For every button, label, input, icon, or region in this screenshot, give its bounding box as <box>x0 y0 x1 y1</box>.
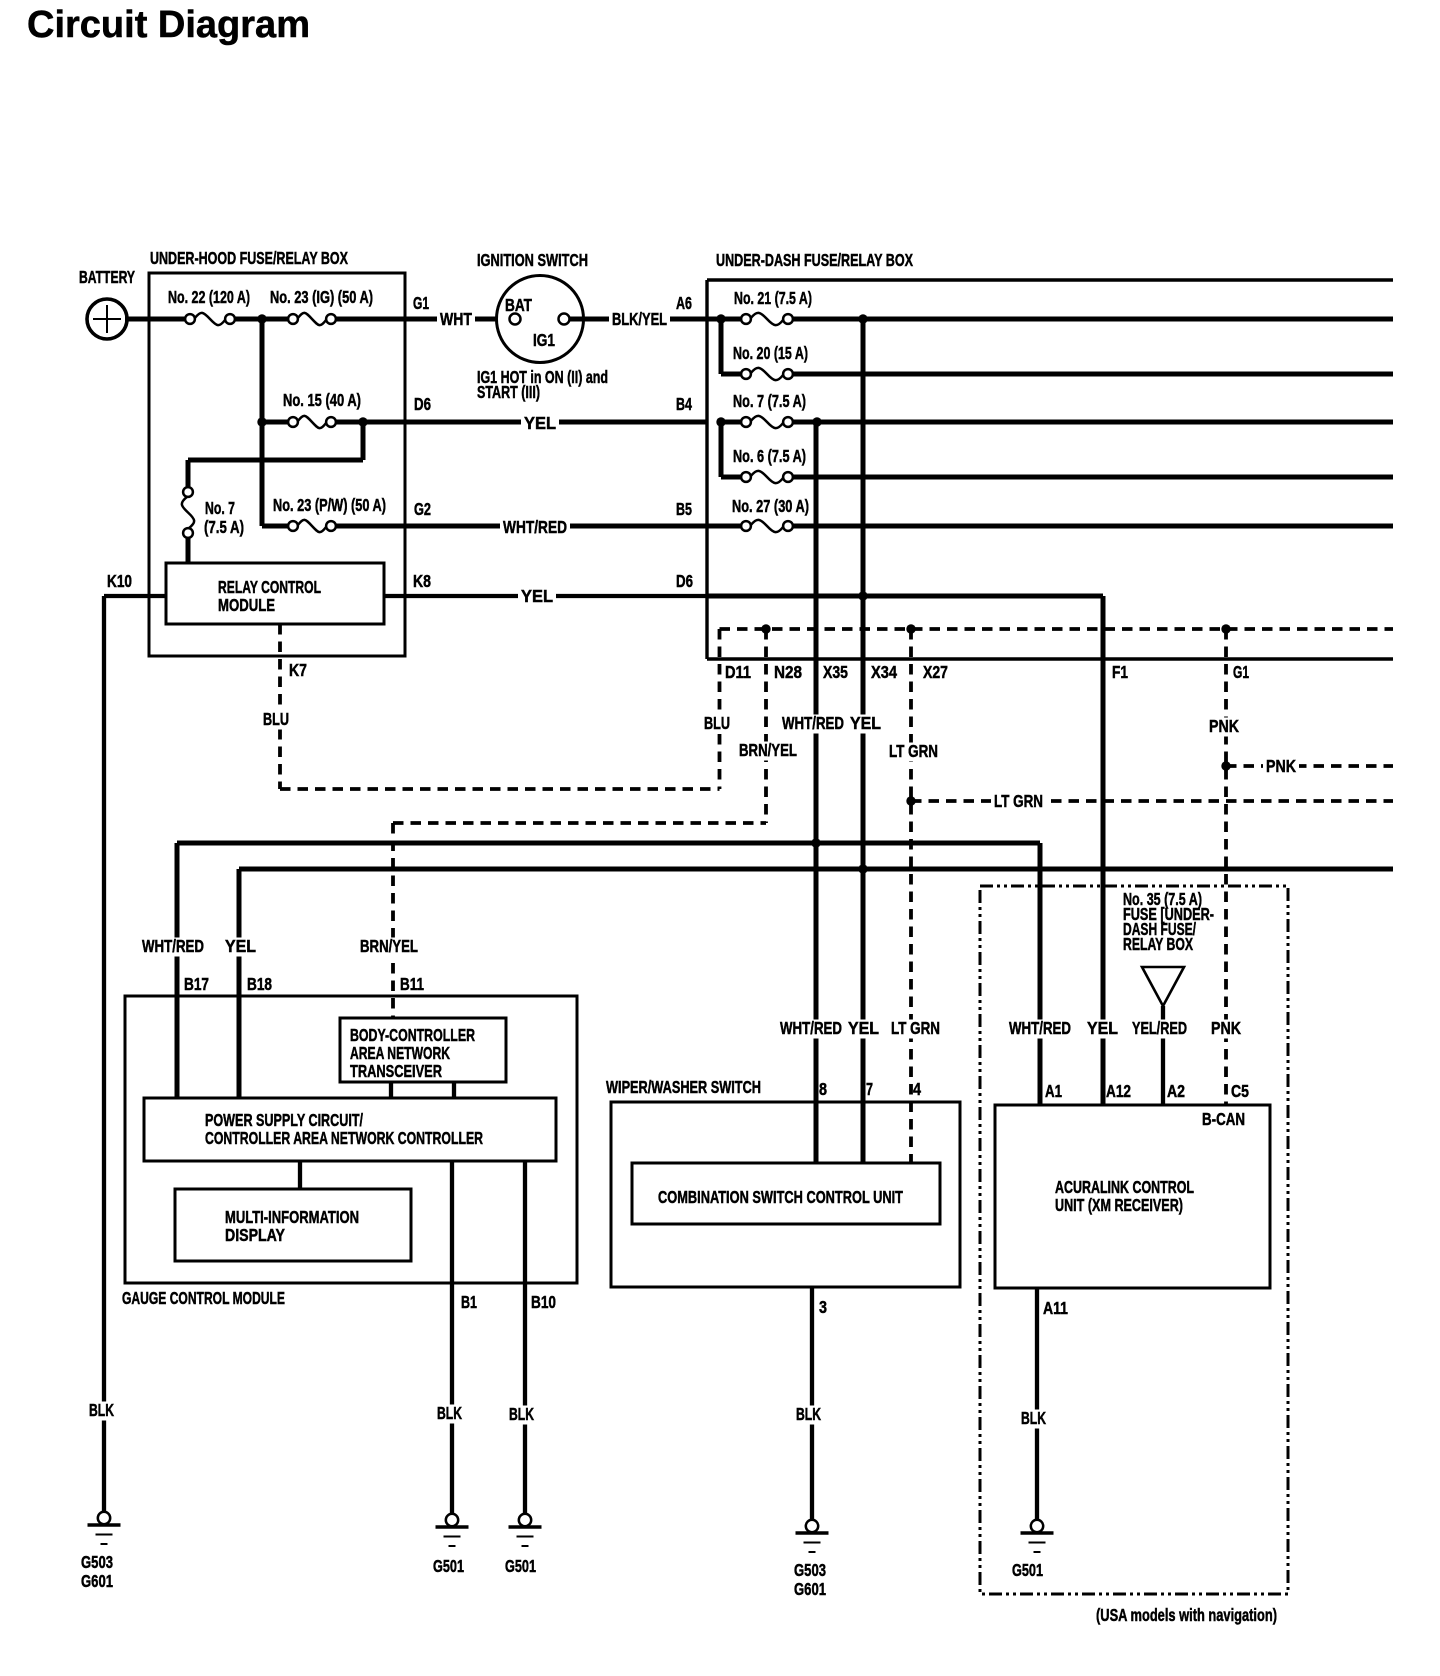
wire fuse No.6 output <box>792 475 1393 480</box>
svg-text:G2: G2 <box>414 499 431 519</box>
under-dash fuse/relay box <box>707 250 1393 659</box>
fuse No.7 (7.5 A) under-dash <box>733 391 806 428</box>
wire B4 to fuse No.7 <box>721 420 742 425</box>
svg-text:COMBINATION SWITCH CONTROL UNI: COMBINATION SWITCH CONTROL UNIT <box>658 1187 903 1207</box>
svg-text:G601: G601 <box>81 1571 113 1591</box>
wire battery to fuse No.22 <box>125 317 186 322</box>
combination switch control unit <box>632 1163 940 1224</box>
wire D6 to F1 corner <box>707 594 1103 599</box>
wire K10 <box>104 571 166 596</box>
node X27 tap <box>906 624 915 633</box>
ground G501 acuralink <box>1012 1520 1054 1580</box>
svg-text:G501: G501 <box>433 1556 464 1576</box>
title Circuit Diagram <box>27 4 310 46</box>
pin A12 <box>1106 1081 1131 1101</box>
wire G2 WHT/RED to B5 <box>335 499 707 538</box>
svg-text:POWER SUPPLY CIRCUIT/: POWER SUPPLY CIRCUIT/ <box>205 1110 363 1130</box>
wire YEL/RED to A2 <box>1129 1006 1190 1105</box>
svg-text:WHT: WHT <box>440 309 472 329</box>
node D6 / X34 tap <box>858 591 867 600</box>
svg-text:WHT/RED: WHT/RED <box>780 1018 842 1038</box>
svg-text:BRN/YEL: BRN/YEL <box>739 740 797 760</box>
fuse No.35 note <box>1123 889 1214 954</box>
fuse No.23 (IG) (50 A) <box>270 287 373 325</box>
svg-text:BLK: BLK <box>437 1403 462 1423</box>
wire WHT/RED trunk <box>139 843 1040 1098</box>
svg-text:YEL: YEL <box>524 413 556 433</box>
wire WHT/RED down to A1 <box>1006 843 1074 1105</box>
multi-information display <box>175 1189 411 1261</box>
svg-text:IG1: IG1 <box>533 330 555 350</box>
wire B4 branch down to fuse No.6 <box>721 422 742 477</box>
pin C5 <box>1231 1081 1249 1101</box>
svg-text:No. 27 (30 A): No. 27 (30 A) <box>732 496 809 516</box>
svg-text:CONTROLLER AREA NETWORK CONTRO: CONTROLLER AREA NETWORK CONTROLLER <box>205 1128 483 1148</box>
wire X34 YEL vertical <box>845 319 897 1163</box>
svg-text:C5: C5 <box>1231 1081 1249 1101</box>
svg-text:RELAY BOX: RELAY BOX <box>1123 934 1193 954</box>
acuralink control unit box <box>995 1105 1270 1288</box>
svg-text:BLU: BLU <box>704 713 730 733</box>
svg-text:BAT: BAT <box>505 295 532 315</box>
wire ignition IG1 BLK/YEL to A6 <box>570 293 721 330</box>
svg-text:No. 6 (7.5 A): No. 6 (7.5 A) <box>733 446 806 466</box>
wire No.15 output to under-hood fuse No.7 <box>188 422 363 489</box>
svg-text:A11: A11 <box>1043 1298 1068 1318</box>
pin A1 <box>1045 1081 1062 1101</box>
node B4 <box>716 417 725 426</box>
node LT GRN branch <box>906 796 915 805</box>
relay control module <box>166 563 384 624</box>
wire fuse No.20 output <box>792 372 1393 377</box>
svg-text:UNDER-DASH FUSE/RELAY BOX: UNDER-DASH FUSE/RELAY BOX <box>716 250 913 270</box>
svg-text:No. 15 (40 A): No. 15 (40 A) <box>283 390 361 410</box>
svg-text:BLU: BLU <box>263 709 289 729</box>
node fuse No.21 output / X34 tap <box>858 314 867 323</box>
fuse No.23 (P/W) (50 A) <box>262 495 386 532</box>
wire B10 BLK <box>506 1161 556 1513</box>
ground G501 B1 <box>433 1514 469 1576</box>
svg-text:B18: B18 <box>247 974 272 994</box>
node N28 tap <box>761 624 770 633</box>
svg-text:BLK: BLK <box>89 1400 114 1420</box>
wire G1 PNK dashed down to C5 <box>1206 629 1249 1105</box>
svg-text:D11: D11 <box>725 662 751 682</box>
svg-text:LT GRN: LT GRN <box>889 741 938 761</box>
fuse No.21 (7.5 A) <box>734 288 812 325</box>
fuse No.27 (30 A) <box>732 496 809 532</box>
svg-text:GAUGE CONTROL MODULE: GAUGE CONTROL MODULE <box>122 1288 285 1308</box>
fuse No.20 (15 A) <box>733 343 808 380</box>
svg-text:8: 8 <box>819 1079 827 1099</box>
node X34 on YEL trunk <box>858 864 867 873</box>
wire PNK dashed to right edge <box>1226 756 1393 777</box>
svg-text:B10: B10 <box>531 1292 556 1312</box>
svg-text:No. 23 (IG) (50 A): No. 23 (IG) (50 A) <box>270 287 373 307</box>
svg-text:B1: B1 <box>461 1292 477 1312</box>
wire X35 WHT/RED vertical <box>777 422 848 1163</box>
wire A11 BLK <box>1018 1288 1068 1520</box>
wire BLK left trunk down <box>102 596 106 1512</box>
svg-text:X27: X27 <box>923 662 948 682</box>
svg-text:BLK: BLK <box>796 1404 821 1424</box>
svg-text:YEL/RED: YEL/RED <box>1132 1018 1187 1038</box>
fuse No.22 (120 A) <box>168 287 250 325</box>
wire X27 LT GRN dashed down to pin 4 <box>886 629 948 1163</box>
svg-text:G501: G501 <box>505 1556 536 1576</box>
svg-text:No. 21 (7.5 A): No. 21 (7.5 A) <box>734 288 812 308</box>
svg-text:G1: G1 <box>1233 662 1249 682</box>
svg-text:K8: K8 <box>413 571 431 591</box>
svg-text:D6: D6 <box>414 394 431 414</box>
svg-text:D6: D6 <box>676 571 693 591</box>
svg-text:UNIT (XM RECEIVER): UNIT (XM RECEIVER) <box>1055 1195 1183 1215</box>
svg-text:B-CAN: B-CAN <box>1202 1109 1245 1129</box>
wire K7 BLU dashed to D11 <box>260 624 751 789</box>
svg-text:X35: X35 <box>823 662 848 682</box>
wires transceiver to controller <box>391 1082 454 1098</box>
svg-text:AREA NETWORK: AREA NETWORK <box>350 1043 450 1063</box>
svg-text:TRANSCEIVER: TRANSCEIVER <box>350 1061 442 1081</box>
svg-text:PNK: PNK <box>1209 716 1239 736</box>
svg-text:K10: K10 <box>107 571 132 591</box>
svg-text:7: 7 <box>866 1079 873 1099</box>
wire node to fuse No.15 <box>262 420 289 425</box>
svg-text:DISPLAY: DISPLAY <box>225 1225 285 1245</box>
node G1 tap <box>1221 624 1230 633</box>
wire node to fuse No.23(IG) <box>262 317 289 322</box>
fuse No.6 (7.5 A) <box>733 446 806 483</box>
fuse No.15 (40 A) <box>283 390 361 428</box>
wire dashed bus in under-dash box <box>720 627 1394 631</box>
svg-text:(7.5 A): (7.5 A) <box>204 517 244 537</box>
wire B5 to fuse No.27 <box>707 524 742 529</box>
ignition switch <box>477 250 588 363</box>
wire K8 YEL to D6 <box>384 571 707 607</box>
ground G501 B10 <box>505 1514 542 1576</box>
svg-text:YEL: YEL <box>521 586 553 606</box>
node PNK branch <box>1221 761 1230 770</box>
svg-text:LT GRN: LT GRN <box>891 1018 940 1038</box>
svg-text:YEL: YEL <box>850 713 881 733</box>
svg-text:YEL: YEL <box>848 1018 879 1038</box>
wire N28 BRN/YEL dashed to B11 <box>357 629 802 1018</box>
svg-text:A6: A6 <box>676 293 692 313</box>
wire fuse No.22 to node <box>234 317 262 322</box>
svg-text:WHT/RED: WHT/RED <box>782 713 844 733</box>
svg-text:BLK: BLK <box>1021 1408 1046 1428</box>
svg-text:MULTI-INFORMATION: MULTI-INFORMATION <box>225 1207 359 1227</box>
svg-text:PNK: PNK <box>1266 756 1296 776</box>
node X35 on WHT/RED trunk <box>811 838 820 847</box>
svg-text:N28: N28 <box>774 662 802 682</box>
wire F1 YEL down to A12 <box>1084 596 1128 1105</box>
svg-text:B5: B5 <box>676 499 692 519</box>
svg-text:3: 3 <box>819 1297 827 1317</box>
svg-text:No. 7 (7.5 A): No. 7 (7.5 A) <box>733 391 806 411</box>
note IG1 HOT <box>477 367 608 402</box>
svg-text:No. 23 (P/W) (50 A): No. 23 (P/W) (50 A) <box>273 495 386 515</box>
svg-text:Circuit Diagram: Circuit Diagram <box>27 4 310 46</box>
wire fuse No.15 output D6 YEL to B4 <box>335 394 707 434</box>
svg-text:LT GRN: LT GRN <box>994 791 1043 811</box>
svg-text:MODULE: MODULE <box>218 595 275 615</box>
svg-text:(USA models with navigation): (USA models with navigation) <box>1096 1605 1277 1625</box>
node under-hood bus <box>257 314 266 323</box>
svg-text:A2: A2 <box>1167 1081 1185 1101</box>
wire controller to display <box>298 1161 302 1189</box>
wire pin 3 BLK <box>793 1287 827 1520</box>
svg-text:BRN/YEL: BRN/YEL <box>360 936 418 956</box>
svg-text:B11: B11 <box>400 974 424 994</box>
fuse No.35 triangle symbol <box>1142 967 1184 1006</box>
svg-text:YEL: YEL <box>1087 1018 1118 1038</box>
battery <box>79 267 135 339</box>
svg-text:YEL: YEL <box>225 936 256 956</box>
pin 8 <box>819 1079 827 1099</box>
svg-text:BLK: BLK <box>509 1404 534 1424</box>
svg-text:G503: G503 <box>794 1560 826 1580</box>
svg-text:BLK/YEL: BLK/YEL <box>612 309 667 329</box>
wire LT GRN dashed to right edge <box>911 791 1393 812</box>
node A6 <box>716 314 725 323</box>
wire B1 BLK <box>434 1161 477 1513</box>
svg-text:A1: A1 <box>1045 1081 1062 1101</box>
svg-text:G601: G601 <box>794 1579 826 1599</box>
svg-text:PNK: PNK <box>1211 1018 1241 1038</box>
wire fuse No.21 output <box>792 317 1393 322</box>
svg-text:A12: A12 <box>1106 1081 1131 1101</box>
svg-text:WHT/RED: WHT/RED <box>1009 1018 1071 1038</box>
wire fuse No.7 output <box>792 420 1393 425</box>
wire under-hood fuse No.7 to relay control module <box>186 537 191 563</box>
ground G503/G601 left <box>81 1512 121 1591</box>
gauge control module box <box>122 996 577 1308</box>
wire fuse No.27 output <box>792 524 1393 529</box>
svg-text:No. 22 (120 A): No. 22 (120 A) <box>168 287 250 307</box>
svg-text:K7: K7 <box>289 660 307 680</box>
svg-text:IGNITION SWITCH: IGNITION SWITCH <box>477 250 588 270</box>
pin 4 <box>913 1079 921 1099</box>
svg-text:B17: B17 <box>184 974 209 994</box>
svg-text:WHT/RED: WHT/RED <box>142 936 204 956</box>
svg-text:UNDER-HOOD FUSE/RELAY BOX: UNDER-HOOD FUSE/RELAY BOX <box>150 248 348 268</box>
svg-text:WIPER/WASHER SWITCH: WIPER/WASHER SWITCH <box>606 1077 761 1097</box>
under-hood fuse/relay box <box>149 248 405 656</box>
svg-text:START (III): START (III) <box>477 382 540 402</box>
svg-text:F1: F1 <box>1112 662 1128 682</box>
wiper/washer switch box <box>606 1077 960 1287</box>
node No.15 output <box>358 417 367 426</box>
pin A2 <box>1167 1081 1185 1101</box>
svg-text:WHT/RED: WHT/RED <box>503 517 567 537</box>
svg-text:BODY-CONTROLLER: BODY-CONTROLLER <box>350 1025 475 1045</box>
wire A6 branch down to fuse No.20 <box>721 319 742 374</box>
body-controller area network transceiver <box>340 1018 506 1082</box>
svg-text:X34: X34 <box>871 662 897 682</box>
node No.15 input <box>257 417 266 426</box>
power supply circuit / CAN controller <box>144 1098 556 1161</box>
svg-text:BATTERY: BATTERY <box>79 267 135 287</box>
wire G1 WHT to ignition BAT <box>335 293 510 330</box>
svg-text:No. 20 (15 A): No. 20 (15 A) <box>733 343 808 363</box>
ground G503/G601 wiper <box>794 1520 829 1599</box>
wire YEL trunk <box>222 869 1393 1098</box>
svg-text:G503: G503 <box>81 1552 113 1572</box>
svg-text:RELAY CONTROL: RELAY CONTROL <box>218 577 321 597</box>
usa-models dash-dot border <box>980 886 1288 1625</box>
wire under-hood bus down <box>260 319 265 526</box>
BLK label left trunk <box>86 1400 117 1421</box>
svg-text:G1: G1 <box>413 293 429 313</box>
svg-text:ACURALINK CONTROL: ACURALINK CONTROL <box>1055 1177 1194 1197</box>
svg-text:B4: B4 <box>676 394 692 414</box>
node fuse No.7 output / X35 tap <box>812 417 821 426</box>
pin 7 <box>866 1079 873 1099</box>
svg-text:4: 4 <box>913 1079 921 1099</box>
fuse No.7 (7.5 A) under-hood <box>182 487 244 538</box>
svg-text:G501: G501 <box>1012 1560 1043 1580</box>
wire A6 to fuse No.21 <box>721 317 742 322</box>
svg-text:No. 7: No. 7 <box>205 498 235 518</box>
